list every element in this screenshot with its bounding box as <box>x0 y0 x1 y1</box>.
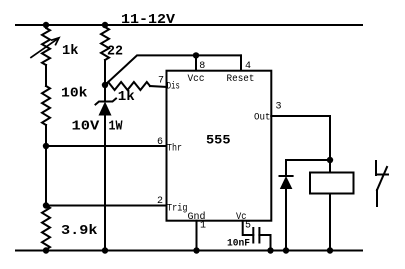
svg-text:10nF: 10nF <box>227 238 250 250</box>
node relay to ground rail <box>327 247 333 253</box>
svg-text:Trig: Trig <box>167 203 188 215</box>
node Thr tap <box>43 143 49 149</box>
node 3.9k to ground rail <box>43 247 49 253</box>
svg-text:Vcc: Vcc <box>188 74 205 85</box>
wire node to diode branch <box>286 159 330 161</box>
node: rail to 22-ohm junction <box>102 22 108 28</box>
resistor 1k (discharge) <box>105 82 150 90</box>
svg-text:3.9k: 3.9k <box>61 223 98 239</box>
node out branch <box>327 157 333 163</box>
resistor 22 <box>101 25 109 60</box>
svg-text:4: 4 <box>245 61 251 72</box>
node diode to ground rail <box>283 247 289 253</box>
relay K1 coil <box>310 160 354 251</box>
svg-text:8: 8 <box>199 61 205 72</box>
svg-text:6: 6 <box>157 137 163 148</box>
svg-text:555: 555 <box>206 133 231 148</box>
node Trig tap <box>43 202 49 208</box>
svg-text:22: 22 <box>107 44 123 60</box>
wire Thr: tap to pin 6 <box>46 145 167 147</box>
zener diode 10V 1W <box>96 85 117 251</box>
wire pin 1 Gnd to ground rail <box>196 221 198 251</box>
svg-text:11-12V: 11-12V <box>121 12 176 28</box>
ground rail (0V) <box>16 250 362 252</box>
wire 1k to pin 7 <box>150 86 167 87</box>
svg-text:3: 3 <box>276 102 282 113</box>
svg-text:Out: Out <box>254 113 271 124</box>
svg-text:10k: 10k <box>61 86 88 102</box>
svg-text:7: 7 <box>158 76 164 87</box>
node zener to ground rail <box>102 247 108 253</box>
power rail 11-12V <box>16 24 362 26</box>
node cap to ground rail <box>267 247 273 253</box>
switch contact (relay contact) <box>376 161 388 206</box>
wire Trig: tap to pin 2 <box>46 205 167 207</box>
wire node to Vcc/Reset (diagonal + horizontal) <box>105 55 241 85</box>
wire 22 down to zener node <box>104 60 106 85</box>
diode D1 (flyback) <box>280 160 293 251</box>
wire pot to 10k <box>45 65 47 86</box>
node: rail to pot junction <box>43 22 49 28</box>
resistor 3.9k <box>42 206 50 250</box>
resistor 10k <box>42 86 50 125</box>
svg-text:Dis: Dis <box>167 81 180 93</box>
node Vcc tap <box>193 52 199 58</box>
svg-text:1: 1 <box>200 221 206 232</box>
capacitor C1 10nF on pin 5 <box>243 221 271 251</box>
svg-text:1k: 1k <box>118 89 135 105</box>
potentiometer 1k <box>31 25 59 65</box>
op-amp U1 555 timer body <box>167 71 272 221</box>
svg-text:5: 5 <box>245 221 251 232</box>
wire 10k down to Trig node <box>45 125 47 206</box>
svg-text:Reset: Reset <box>227 74 255 85</box>
svg-text:1k: 1k <box>62 43 79 59</box>
svg-text:2: 2 <box>157 196 163 207</box>
svg-text:Thr: Thr <box>167 143 182 155</box>
node pin1 to rail <box>193 247 199 253</box>
wire Out pin3 to relay branch <box>271 116 330 160</box>
svg-text:10V: 10V <box>72 119 100 135</box>
svg-text:1W: 1W <box>109 119 123 135</box>
node zener/1k/Vcc junction <box>102 82 108 88</box>
